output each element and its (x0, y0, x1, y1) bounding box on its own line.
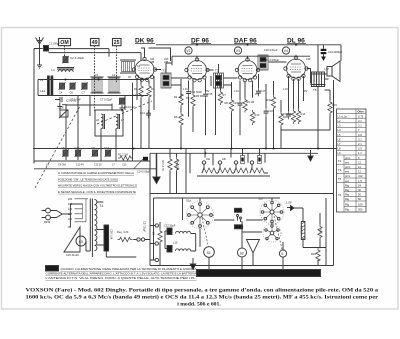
svg-text:OM: OM (60, 40, 68, 46)
svg-text:RETE: RETE (44, 221, 51, 224)
svg-text:2.5: 2.5 (358, 147, 362, 151)
svg-text:prim: prim (345, 174, 351, 178)
svg-text:12: 12 (358, 165, 361, 169)
resistor R17 (161, 157, 172, 172)
svg-text:1M: 1M (152, 232, 156, 236)
svg-text:412: 412 (358, 174, 363, 178)
svg-text:C17: C17 (261, 89, 266, 93)
svg-text:R7: R7 (223, 93, 227, 97)
capacitor C17 (256, 88, 266, 96)
svg-text:C6: C6 (70, 91, 74, 95)
wire bottom main bus (33, 149, 337, 154)
terminal circles output (155, 224, 158, 262)
svg-text:12: 12 (358, 170, 361, 174)
wire top bus left (49, 49, 142, 61)
wire osc section verticals (66, 83, 133, 161)
svg-text:CORRENTE ALTERNATA DELL'APPARE: CORRENTE ALTERNATA DELL'APPARECCHIO. L'A… (46, 272, 197, 276)
coil L6 (96, 114, 105, 129)
svg-text:S2: S2 (240, 251, 244, 255)
dashed selector link 25 (116, 46, 118, 83)
knob S4 (279, 250, 286, 257)
svg-text:R11: R11 (267, 98, 272, 102)
wire coil row connections (170, 149, 270, 194)
junction dots (65, 44, 320, 155)
trimmer C11 (91, 146, 98, 157)
open triangle ground (247, 240, 260, 254)
wire DK96 grid top (141, 48, 171, 61)
capacitor C18 (264, 108, 274, 116)
wire left rail (34, 49, 40, 164)
svg-text:1.5V: 1.5V (286, 201, 292, 205)
dashed tuning gang link C5 (35, 106, 80, 188)
dashed tuning gang link C9 (97, 101, 152, 124)
svg-text:L12: L12 (325, 67, 330, 71)
svg-text:C20 0.01µF: C20 0.01µF (264, 48, 278, 52)
svg-text:MISURATE VERSO MASSA CON VOLTM: MISURATE VERSO MASSA CON VOLTMETRO ELETT… (58, 184, 137, 188)
svg-text:prim: prim (345, 156, 351, 160)
coil row L9a (234, 156, 248, 174)
resistor R13 (287, 109, 296, 124)
svg-text:L5: L5 (338, 133, 341, 137)
svg-text:200: 200 (358, 208, 363, 212)
svg-text:0.8: 0.8 (358, 133, 362, 137)
svg-text:V4: V4 (284, 49, 288, 53)
svg-text:C13: C13 (122, 163, 127, 166)
svg-text:IL COMMUTATORE "PILE-RETE" E': IL COMMUTATORE "PILE-RETE" E' RAPPRESENT… (200, 272, 312, 276)
trimmer C12 (104, 146, 111, 157)
svg-text:S1: S1 (207, 251, 211, 255)
oscillator coil can outline (95, 110, 123, 136)
tube V4 DL96 (282, 37, 308, 80)
svg-text:T4: T4 (338, 193, 342, 197)
wire switch area (150, 198, 334, 270)
capacitor C26 (104, 225, 113, 251)
svg-text:24: 24 (358, 183, 361, 187)
switch tag RADIO (235, 225, 244, 229)
svg-text:220: 220 (68, 198, 73, 201)
resistor R1 (118, 153, 133, 161)
trimmer C7 (81, 82, 88, 94)
svg-text:R17 4.7K: R17 4.7K (161, 161, 164, 172)
svg-text:C13: C13 (140, 111, 145, 115)
svg-text:S1a: S1a (186, 199, 191, 203)
resistor R7 (218, 90, 226, 105)
caption paragraph (26, 287, 379, 308)
resistor R8 (225, 98, 234, 113)
coil L4 (108, 73, 121, 93)
mains voltage taps (68, 198, 73, 221)
IF transformer T3 (214, 69, 224, 89)
svg-text:1600 kc/s, OC da 5,9 a 6,3 Mc/: 1600 kc/s, OC da 5,9 a 6,3 Mc/s (banda 4… (26, 294, 379, 301)
svg-text:1.4V: 1.4V (183, 88, 188, 91)
ground arrow bottom (190, 258, 196, 270)
svg-text:C16: C16 (233, 101, 238, 105)
dashed selector link 49 (94, 46, 96, 112)
diode arrow 1.5V (286, 201, 294, 211)
resistor R14 (296, 109, 306, 124)
svg-text:POSIZIONE "OM". LE TENSIONI IN: POSIZIONE "OM". LE TENSIONI INDICATE SON… (58, 177, 118, 181)
capacitor C23 (321, 45, 343, 71)
svg-text:R8: R8 (225, 101, 229, 105)
svg-text:R6: R6 (186, 96, 190, 100)
caption bar commutatore (197, 270, 321, 277)
wire DK96 pin drops (137, 76, 154, 149)
rotary switch S1b wafer (258, 197, 284, 225)
coil L1 (52, 68, 75, 73)
note text block band-switch (58, 171, 137, 194)
svg-text:L7: L7 (338, 142, 341, 146)
tap tick wires (75, 199, 89, 222)
capacitor C23 with choke L11 (167, 241, 191, 253)
svg-text:C25 40+40: C25 40+40 (66, 253, 79, 257)
trimmer C7b (119, 97, 126, 111)
svg-text:2.1: 2.1 (358, 142, 362, 146)
svg-text:R9 1M: R9 1M (247, 100, 255, 104)
svg-text:C26 1.5K: C26 1.5K (110, 229, 113, 240)
capacitor C22 with choke L10 (164, 224, 191, 235)
coil L2 (120, 60, 141, 73)
svg-text:C22 50µF: C22 50µF (164, 224, 176, 228)
switch tag MOTO (235, 208, 243, 212)
B+ arrow (156, 153, 158, 178)
svg-text:2.1: 2.1 (358, 124, 362, 128)
wire screen bus (172, 56, 310, 65)
rotor link S1b (274, 216, 282, 249)
knob S2 (238, 248, 247, 257)
svg-text:R4: R4 (174, 95, 178, 99)
coil row L8b (218, 158, 232, 173)
coil cores L1a L3 (40, 76, 53, 96)
resistor R2 (134, 84, 143, 99)
svg-text:R5: R5 (174, 115, 178, 119)
capacitor C1 100pF (44, 42, 61, 51)
svg-text:C13 0.02: C13 0.02 (124, 105, 135, 109)
wire switch section bus (150, 154, 334, 266)
capacitor C15 (203, 91, 213, 99)
svg-text:L7: L7 (121, 118, 125, 122)
svg-text:L'ANTENNA DI T.N. VA AL PRESO.: L'ANTENNA DI T.N. VA AL PRESO. FORN. A Q… (46, 276, 197, 280)
svg-text:C23 2000pF: C23 2000pF (328, 50, 343, 54)
resistor R19 (117, 230, 133, 242)
wire filter section (160, 222, 196, 266)
svg-text:49: 49 (92, 40, 98, 46)
rotary switch S1a wafer (186, 199, 214, 229)
svg-text:40: 40 (358, 188, 361, 192)
svg-text:C15: C15 (208, 92, 213, 96)
contact pair between tags (237, 215, 242, 223)
resistor R4 (174, 92, 183, 107)
tube V3 DAF96 (234, 37, 260, 82)
svg-text:L6: L6 (96, 118, 100, 122)
detector coil block (258, 55, 268, 70)
coil L5 (91, 73, 104, 93)
wire mid drops (189, 76, 221, 135)
resistor R15 (328, 100, 338, 115)
NOTA tag (46, 266, 59, 272)
svg-text:L3: L3 (40, 78, 44, 82)
wire antenna to ground run (37, 57, 42, 68)
svg-text:Rig: Rig (345, 188, 350, 192)
wire top HT bus (156, 45, 341, 72)
svg-text:L3: L3 (338, 124, 341, 128)
svg-text:L4: L4 (338, 128, 341, 132)
svg-text:L2: L2 (137, 64, 141, 68)
svg-text:R16: R16 (319, 229, 323, 234)
capacitor C20 (264, 48, 279, 62)
svg-text:R14: R14 (301, 112, 306, 116)
pin labels DK96 (128, 58, 169, 97)
svg-text:1.5: 1.5 (358, 179, 362, 183)
svg-text:VOXSON (Fare) - Mod. 602 Dingh: VOXSON (Fare) - Mod. 602 Dinghy. Portati… (26, 287, 379, 294)
svg-text:QUANDO L'ALIMENTAZIONE VIENE P: QUANDO L'ALIMENTAZIONE VIENE PRELEVATA P… (61, 267, 197, 271)
wire DAF96 pin drops (232, 74, 259, 149)
trimmer C2 (62, 56, 84, 63)
svg-text:prim: prim (345, 165, 351, 169)
svg-text:100: 100 (358, 202, 363, 206)
coil L7 (116, 114, 125, 129)
svg-text:R20: R20 (311, 252, 316, 256)
svg-text:R5 3M: R5 3M (196, 95, 203, 98)
svg-text:R10: R10 (255, 113, 260, 117)
capacitor C3 0.01uF (55, 97, 77, 110)
resistor R9 (243, 98, 254, 113)
svg-text:L8B: L8B (150, 61, 155, 64)
svg-text:C7: C7 (82, 91, 86, 95)
svg-text:C10 49: C10 49 (76, 163, 84, 166)
table text (338, 110, 365, 212)
svg-text:1.4V: 1.4V (283, 88, 288, 91)
svg-text:IL COMMUTATORE DI GAMMA E RAPP: IL COMMUTATORE DI GAMMA E RAPPRESENTATO … (58, 171, 134, 175)
svg-text:50: 50 (358, 193, 361, 197)
resistor R12 (279, 112, 289, 127)
resistor R3 (147, 84, 155, 99)
svg-text:Ohm: Ohm (358, 110, 365, 114)
power transformer T4 (90, 199, 103, 252)
band box 25 (113, 39, 122, 47)
capacitor C5 1-9pF (70, 98, 135, 110)
svg-text:T3: T3 (338, 168, 342, 172)
trimmer C4 (59, 82, 66, 94)
dashed selector link OM (64, 46, 66, 57)
svg-text:C27 25µF: C27 25µF (143, 221, 146, 233)
wire DF96 pin drops (181, 76, 211, 149)
wire speaker connections (318, 74, 334, 198)
capacitor C19 (281, 111, 291, 119)
svg-text:C22: C22 (306, 58, 311, 61)
resistor R11 (267, 95, 276, 110)
svg-text:V3: V3 (236, 49, 240, 53)
svg-text:E SENZA SEGNALE. CON IL RICEVI: E SENZA SEGNALE. CON IL RICEVITORE FUNZI… (58, 190, 136, 194)
svg-text:Reg. 4.2K: Reg. 4.2K (117, 230, 129, 234)
svg-text:S1b: S1b (258, 197, 263, 201)
trimmer C6 (69, 82, 76, 94)
tube V2 DF96 (185, 37, 211, 82)
IF transformer T2 (161, 69, 171, 89)
svg-text:60: 60 (358, 197, 361, 201)
svg-text:C9: C9 (61, 146, 65, 150)
svg-text:Rig: Rig (345, 183, 350, 187)
rotor link S1a (202, 218, 209, 247)
svg-text:L10: L10 (173, 241, 178, 245)
svg-text:T4: T4 (100, 204, 104, 208)
wire DL96 pin drops (266, 69, 311, 149)
wire T4 primary (68, 204, 82, 227)
resistor R6 (186, 93, 195, 108)
svg-text:R15: R15 (332, 103, 337, 107)
svg-text:sec: sec (345, 171, 350, 174)
antenna (36, 37, 44, 57)
svg-text:L8: L8 (338, 147, 341, 151)
wire right column (281, 90, 330, 130)
band box 49 (91, 39, 100, 47)
wire osc bottom bus (34, 161, 157, 169)
pin labels DF96 (183, 88, 210, 98)
svg-text:B1 45V: B1 45V (300, 226, 304, 235)
battery B1 hatched (300, 222, 305, 240)
resistor R20 (311, 248, 320, 263)
wire coil bus upper (38, 79, 148, 81)
parts value table (337, 109, 367, 212)
mains plug (42, 208, 71, 224)
svg-text:V2: V2 (186, 49, 190, 53)
svg-text:C5 1-9pF: C5 1-9pF (70, 98, 81, 102)
svg-text:0.75: 0.75 (358, 114, 364, 118)
capacitor C16 (233, 100, 242, 108)
svg-text:C8: C8 (60, 106, 64, 110)
svg-text:C11 25: C11 25 (94, 163, 102, 166)
resistor R16 (318, 225, 323, 240)
output transformer T5 (311, 72, 326, 92)
capacitor C14 (186, 89, 202, 97)
capacitor C13 (140, 110, 151, 118)
resistor R5 (174, 112, 183, 127)
svg-text:C2 4-20pF: C2 4-20pF (70, 56, 84, 60)
svg-text:NOTA: NOTA (47, 267, 57, 271)
svg-text:C11: C11 (91, 146, 96, 150)
svg-text:1.1: 1.1 (358, 151, 362, 155)
svg-text:C9 OM: C9 OM (58, 163, 66, 166)
svg-text:Rsg 10K: Rsg 10K (176, 161, 179, 171)
svg-text:L2: L2 (338, 119, 341, 123)
wire coil bus lower (38, 80, 148, 96)
trimmer C10 (75, 146, 82, 157)
coil row L8a (202, 158, 216, 173)
svg-text:MOTO: MOTO (235, 209, 243, 213)
svg-text:sec: sec (345, 161, 350, 164)
svg-text:Rig: Rig (345, 197, 350, 201)
resistor R10 (250, 110, 260, 125)
svg-text:1.4V: 1.4V (133, 94, 138, 97)
svg-text:2.1: 2.1 (358, 119, 362, 123)
svg-text:S3: S3 (79, 240, 83, 244)
tube V1 DK96 (132, 37, 156, 81)
band box OM (59, 39, 71, 47)
svg-text:C7 0.02µF: C7 0.02µF (100, 98, 113, 102)
svg-text:C12: C12 (104, 146, 109, 150)
svg-text:T2: T2 (338, 159, 342, 163)
knob S1 (204, 247, 215, 258)
pin labels DL96 (283, 58, 311, 93)
svg-text:Rig: Rig (345, 193, 350, 197)
trimmer C9 (61, 146, 69, 157)
coil row L9b (250, 156, 264, 174)
B- arrow right (308, 150, 313, 161)
svg-text:T5: T5 (338, 177, 342, 181)
svg-text:C21 0.005µF: C21 0.005µF (264, 58, 279, 62)
svg-text:3.1: 3.1 (358, 137, 362, 141)
svg-text:L1+L1a: L1+L1a (338, 114, 348, 118)
capacitor C8 (59, 106, 68, 119)
svg-text:L1a: L1a (40, 89, 45, 93)
resistor R18 (174, 157, 178, 172)
svg-text:Rig: Rig (345, 208, 350, 212)
svg-text:C14 0.05µF: C14 0.05µF (137, 170, 151, 173)
svg-text:Rig: Rig (345, 202, 350, 206)
svg-text:L8b: L8b (222, 158, 227, 161)
NOTA text lines (46, 267, 197, 280)
svg-text:L9: L9 (338, 151, 341, 155)
rotary switch S1c wafer (263, 224, 281, 242)
svg-text:L1: L1 (52, 68, 56, 72)
terminal circles rectifier (137, 238, 145, 241)
speaker (327, 61, 340, 82)
wire tube interconnect (155, 62, 287, 98)
svg-text:C14 5000: C14 5000 (191, 90, 203, 94)
svg-text:L8a: L8a (206, 158, 211, 161)
svg-text:T5: T5 (313, 88, 317, 92)
pin labels DAF96 (234, 90, 260, 96)
svg-text:i modd. 506 e 601.: i modd. 506 e 601. (177, 302, 221, 308)
switch S3 (76, 236, 86, 246)
wire power section (86, 202, 155, 260)
svg-text:1.4V: 1.4V (234, 90, 239, 93)
svg-text:0V: 0V (128, 76, 131, 79)
svg-text:R1 2.2M: R1 2.2M (118, 153, 128, 157)
svg-text:C10: C10 (75, 146, 80, 150)
resistor R21 (152, 229, 163, 244)
component label row (46, 163, 127, 166)
selector triangle linkage (64, 227, 80, 252)
svg-text:12: 12 (358, 160, 361, 164)
svg-text:C19: C19 (281, 112, 286, 116)
svg-text:C18: C18 (268, 109, 273, 113)
svg-text:sec: sec (345, 180, 350, 183)
svg-text:25: 25 (114, 40, 120, 46)
svg-text:C4: C4 (59, 91, 63, 95)
svg-text:L6: L6 (338, 137, 341, 141)
svg-text:S: S (281, 252, 283, 256)
